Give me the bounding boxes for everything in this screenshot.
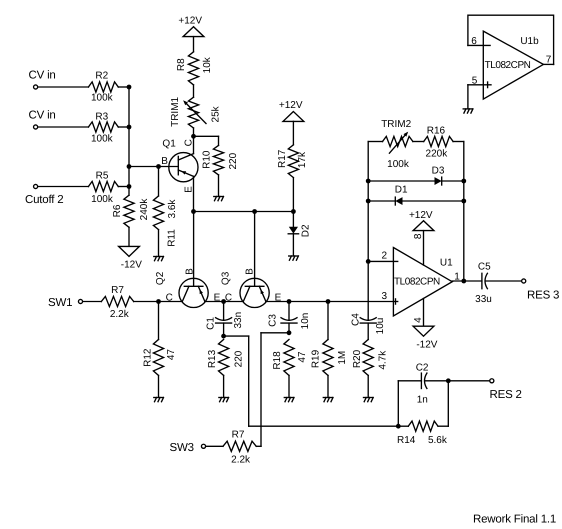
- diode D1: [395, 197, 402, 205]
- wire: [292, 178, 294, 212]
- svg-text:D2: D2: [300, 224, 311, 237]
- wire: [288, 302, 290, 321]
- wire: [218, 136, 220, 145]
- trimmer TRIM1: [188, 97, 198, 128]
- ground U1b: [463, 109, 473, 113]
- resistor R5: [88, 181, 118, 191]
- ground: [323, 398, 333, 402]
- wire: [327, 302, 329, 340]
- wire: [83, 301, 102, 303]
- svg-text:5: 5: [472, 76, 478, 87]
- resistor R16: [424, 136, 453, 146]
- svg-text:+12V: +12V: [178, 16, 202, 27]
- resistor R11: [153, 196, 163, 230]
- resistor R6: [124, 195, 134, 227]
- wire: [38, 86, 89, 88]
- svg-text:U1: U1: [440, 258, 453, 269]
- terminal SW1: [78, 299, 82, 303]
- svg-text:C2: C2: [416, 362, 429, 373]
- wire: [206, 445, 223, 447]
- svg-text:240k: 240k: [139, 198, 150, 221]
- junction output node: [461, 279, 466, 284]
- wire: [193, 85, 195, 97]
- ground: [214, 197, 224, 201]
- wire: [256, 445, 261, 447]
- svg-text:220: 220: [234, 350, 245, 367]
- wire: [292, 212, 294, 227]
- wire Q2 base: [193, 212, 195, 287]
- capacitor C1: [216, 318, 232, 323]
- svg-text:R16: R16: [427, 126, 446, 137]
- svg-text:47: 47: [297, 351, 308, 363]
- wire: [425, 380, 490, 382]
- svg-text:8: 8: [413, 233, 424, 239]
- svg-text:C: C: [166, 292, 173, 303]
- svg-text:R17: R17: [277, 149, 288, 168]
- wire: [158, 302, 160, 340]
- svg-text:4: 4: [413, 317, 424, 323]
- pin 7 wire: [543, 63, 553, 65]
- svg-text:R8: R8: [176, 58, 187, 71]
- svg-text:R2: R2: [95, 70, 108, 81]
- svg-text:10k: 10k: [202, 56, 213, 73]
- transistor Q2: [179, 278, 208, 307]
- svg-text:R12: R12: [142, 348, 153, 367]
- wire Q1 emitter: [193, 176, 195, 211]
- op-amp U1b: [483, 31, 543, 99]
- svg-text:1n: 1n: [417, 394, 428, 405]
- wire D3 row: [368, 180, 434, 182]
- wire: [260, 333, 262, 447]
- junction: [446, 378, 451, 383]
- resistor R7 bottom: [223, 441, 256, 451]
- transistor Q1: [169, 153, 198, 182]
- resistor R3: [88, 122, 118, 132]
- ground: [154, 398, 164, 402]
- svg-text:C1: C1: [206, 317, 217, 330]
- terminal RES 2: [490, 379, 494, 383]
- transistor Q3: [240, 278, 269, 307]
- resistor R14: [408, 421, 438, 431]
- wire: [327, 375, 329, 397]
- wire: [467, 85, 469, 109]
- wire: [368, 141, 382, 143]
- pin 6 wire: [468, 44, 490, 46]
- wire D1 row: [368, 200, 395, 202]
- svg-text:RES 3: RES 3: [527, 290, 559, 302]
- junction: [291, 209, 296, 214]
- ground: [284, 398, 294, 402]
- svg-text:R3: R3: [95, 111, 108, 122]
- svg-text:D3: D3: [432, 166, 445, 177]
- pin 2 wire: [368, 260, 398, 262]
- svg-text:CV in: CV in: [29, 110, 56, 122]
- svg-text:47: 47: [166, 349, 177, 361]
- wire: [118, 86, 129, 88]
- junction: [366, 259, 371, 264]
- resistor R18: [284, 340, 294, 376]
- wire main row: [266, 301, 394, 303]
- junction: [221, 299, 226, 304]
- svg-text:2.2k: 2.2k: [231, 454, 251, 465]
- wire: [403, 200, 464, 202]
- svg-text:2: 2: [382, 250, 388, 261]
- svg-text:33u: 33u: [475, 294, 492, 305]
- resistor R13: [219, 340, 229, 376]
- svg-text:R7: R7: [111, 285, 124, 296]
- svg-text:1M: 1M: [337, 351, 348, 365]
- wire: [367, 323, 369, 339]
- power +12V symbol U1: [413, 221, 434, 231]
- svg-text:Rework Final 1.1: Rework Final 1.1: [473, 514, 556, 526]
- svg-text:3.6k: 3.6k: [167, 199, 178, 219]
- svg-text:D1: D1: [395, 185, 408, 196]
- wire: [398, 425, 408, 427]
- wire: [485, 280, 521, 282]
- junction: [461, 179, 466, 184]
- svg-text:C3: C3: [268, 314, 279, 327]
- svg-text:4.7k: 4.7k: [378, 350, 389, 370]
- svg-text:100k: 100k: [91, 134, 114, 145]
- trimmer TRIM2 arrow: [389, 133, 406, 153]
- svg-text:SW1: SW1: [48, 297, 72, 309]
- wire: [413, 141, 424, 143]
- power +12V symbol: [183, 27, 204, 37]
- junction Q1 collector node: [191, 134, 196, 139]
- wire: [193, 37, 195, 52]
- junction: [127, 125, 132, 130]
- junction: [396, 424, 401, 429]
- svg-text:Q1: Q1: [162, 138, 176, 149]
- power -12V symbol U1: [413, 326, 434, 336]
- diode D2: [288, 227, 298, 234]
- junction: [127, 184, 132, 189]
- svg-text:220k: 220k: [426, 148, 449, 159]
- wire: [118, 186, 129, 188]
- svg-text:R10: R10: [202, 150, 213, 169]
- wire: [118, 126, 129, 128]
- junction: [326, 299, 331, 304]
- svg-text:TRIM1: TRIM1: [170, 96, 181, 126]
- svg-text:Cutoff 2: Cutoff 2: [25, 194, 63, 206]
- resistor R2: [88, 82, 118, 92]
- junction: [191, 209, 196, 214]
- svg-text:R13: R13: [207, 349, 218, 368]
- terminal Cutoff 2: [34, 184, 38, 188]
- terminal RES 3: [522, 279, 526, 283]
- wire: [193, 128, 195, 136]
- wire: [38, 126, 89, 128]
- wire: [367, 375, 369, 397]
- wire: [453, 141, 464, 143]
- svg-text:-12V: -12V: [416, 340, 437, 351]
- resistor R20: [363, 340, 373, 376]
- svg-text:R14: R14: [397, 435, 416, 446]
- resistor R10: [213, 145, 223, 175]
- svg-text:R7: R7: [232, 430, 245, 441]
- svg-text:RES 2: RES 2: [490, 389, 522, 401]
- svg-text:TL082CPN: TL082CPN: [485, 60, 531, 71]
- diode D3: [435, 177, 442, 185]
- wire feedback column: [367, 142, 369, 321]
- wire summing bus: [128, 87, 130, 195]
- svg-text:B: B: [244, 268, 255, 275]
- svg-text:3: 3: [382, 291, 388, 302]
- svg-text:+12V: +12V: [409, 210, 433, 221]
- pin 8 wire: [423, 231, 425, 265]
- wire Q1 collector: [193, 136, 195, 153]
- wire: [447, 381, 449, 426]
- ground: [219, 398, 229, 402]
- svg-text:10n: 10n: [300, 313, 311, 330]
- svg-text:B: B: [161, 156, 168, 167]
- junction: [156, 299, 161, 304]
- junction: [127, 85, 132, 90]
- wire: [205, 301, 243, 303]
- svg-text:C5: C5: [478, 262, 491, 273]
- svg-text:TL082CPN: TL082CPN: [394, 276, 440, 287]
- wire: [288, 375, 290, 397]
- ground: [289, 256, 299, 260]
- junction: [287, 299, 292, 304]
- terminal SW3: [201, 444, 205, 448]
- capacitor C3: [281, 318, 297, 323]
- wire: [128, 227, 130, 246]
- wire: [218, 175, 220, 197]
- wire: [158, 375, 160, 397]
- svg-text:5.6k: 5.6k: [428, 435, 448, 446]
- svg-text:6: 6: [471, 36, 477, 47]
- resistor R12: [153, 340, 163, 376]
- svg-text:+12V: +12V: [279, 100, 303, 111]
- svg-text:R20: R20: [352, 349, 363, 368]
- resistor R7 top: [101, 296, 133, 306]
- resistor R19: [323, 340, 333, 376]
- trimmer TRIM1 arrow: [185, 102, 206, 123]
- wire: [134, 301, 183, 303]
- junction: [366, 199, 371, 204]
- power -12V symbol: [119, 246, 140, 256]
- junction: [287, 330, 292, 335]
- svg-text:17k: 17k: [297, 151, 308, 168]
- svg-text:100k: 100k: [91, 93, 114, 104]
- ground: [154, 257, 164, 261]
- svg-text:100k: 100k: [91, 194, 114, 205]
- svg-text:R18: R18: [272, 351, 283, 370]
- wire: [158, 167, 160, 197]
- svg-text:-12V: -12V: [121, 260, 142, 271]
- wire: [38, 186, 89, 188]
- svg-text:C: C: [183, 139, 194, 146]
- svg-text:10u: 10u: [375, 318, 386, 335]
- pin 3 wire plus: [393, 301, 397, 303]
- wire Q3 base: [254, 212, 256, 287]
- svg-text:U1b: U1b: [520, 36, 539, 47]
- junction: [221, 334, 226, 339]
- svg-text:Q2: Q2: [155, 271, 166, 285]
- junction: [461, 199, 466, 204]
- pin 5 wire plus: [468, 84, 491, 86]
- wire output: [452, 280, 482, 282]
- svg-text:100k: 100k: [387, 159, 410, 170]
- svg-text:C: C: [225, 292, 232, 303]
- wire: [397, 381, 399, 426]
- wire: [261, 332, 289, 334]
- capacitor C5: [482, 273, 488, 288]
- wire: [292, 234, 294, 256]
- svg-text:CV in: CV in: [29, 70, 56, 82]
- wire: [292, 121, 294, 144]
- wire: [158, 230, 160, 257]
- svg-text:2.2k: 2.2k: [110, 309, 130, 320]
- power +12V symbol R17: [283, 112, 304, 122]
- capacitor C2: [421, 373, 427, 388]
- svg-text:220: 220: [228, 152, 239, 169]
- svg-text:R19: R19: [311, 349, 322, 368]
- svg-text:SW3: SW3: [170, 442, 194, 454]
- capacitor C4: [360, 318, 376, 323]
- wire: [223, 375, 225, 397]
- svg-text:Q3: Q3: [221, 271, 232, 285]
- terminal CV in 1: [34, 85, 38, 89]
- svg-text:TRIM2: TRIM2: [381, 119, 411, 130]
- wire: [223, 302, 225, 321]
- svg-text:25k: 25k: [210, 105, 221, 122]
- wire: [438, 425, 448, 427]
- svg-text:7: 7: [546, 55, 552, 66]
- junction: [252, 209, 257, 214]
- svg-text:C4: C4: [351, 313, 362, 326]
- wire U1b feedback: [468, 15, 554, 64]
- junction: [127, 164, 132, 169]
- junction: [156, 164, 161, 169]
- wire: [288, 323, 290, 333]
- wire bottom bus: [249, 425, 399, 427]
- trimmer TRIM2: [383, 136, 413, 146]
- wire emitter bus: [194, 211, 294, 213]
- wire: [442, 180, 464, 182]
- wire: [223, 323, 225, 336]
- wire: [224, 335, 249, 337]
- pin 4 wire: [423, 299, 425, 327]
- op-amp U1: [393, 248, 452, 316]
- svg-text:33n: 33n: [233, 312, 244, 329]
- resistor R8: [188, 52, 198, 85]
- svg-text:R11: R11: [167, 229, 178, 247]
- wire: [248, 336, 250, 426]
- junction: [366, 179, 371, 184]
- wire feedback right column: [463, 142, 465, 282]
- wire: [398, 380, 421, 382]
- svg-text:R6: R6: [112, 204, 123, 217]
- wire base node: [129, 166, 178, 168]
- terminal CV in 2: [34, 125, 38, 129]
- svg-text:R5: R5: [96, 170, 109, 181]
- wire: [194, 135, 219, 137]
- ground: [364, 398, 374, 402]
- resistor R17: [288, 145, 298, 178]
